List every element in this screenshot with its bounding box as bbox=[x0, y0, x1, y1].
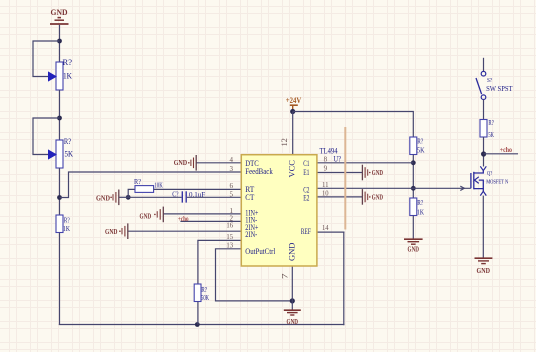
ground GND at RT/CT bbox=[96, 190, 119, 206]
ground GND at pin 4 bbox=[174, 155, 197, 171]
svg-text:1K: 1K bbox=[63, 224, 70, 233]
svg-text:FeedBack: FeedBack bbox=[245, 167, 272, 176]
svg-text:GND: GND bbox=[140, 213, 152, 221]
wire pin 1 to GND bbox=[164, 213, 242, 215]
svg-text:7: 7 bbox=[280, 274, 289, 280]
svg-text:8: 8 bbox=[324, 156, 328, 164]
wire pot2 bottom to R1K top bbox=[59, 168, 61, 216]
wire wiper loop of pot 1 bbox=[33, 41, 60, 77]
resistor R? 50K bbox=[194, 284, 209, 302]
wire MOSFET source to GND bbox=[482, 196, 484, 258]
svg-text:5: 5 bbox=[230, 190, 234, 198]
transistor Q? MOSFET N bbox=[471, 166, 509, 195]
ground GND below right R1K bbox=[404, 239, 423, 253]
svg-text:3: 3 bbox=[230, 165, 234, 173]
svg-text:GND: GND bbox=[372, 193, 383, 201]
op-amp U? TL494 IC body bbox=[226, 138, 341, 279]
svg-text:GND: GND bbox=[477, 267, 491, 275]
ground GND at pin 9 bbox=[362, 165, 383, 181]
svg-text:GND: GND bbox=[96, 194, 110, 202]
wire pin 11 to MOSFET gate bbox=[317, 187, 471, 189]
svg-text:R?: R? bbox=[417, 198, 423, 207]
svg-text:GND: GND bbox=[51, 8, 68, 17]
wire wiper loop of pot 2 bbox=[33, 118, 60, 155]
wire junction I up to R10K bbox=[128, 189, 135, 197]
junction node B bbox=[57, 116, 62, 121]
svg-text:U?: U? bbox=[334, 154, 342, 163]
power port +24V bbox=[286, 96, 302, 112]
wire R10K to pin 6 RT bbox=[154, 188, 242, 190]
resistor R? 5K right bbox=[410, 137, 425, 155]
svg-text:13: 13 bbox=[226, 242, 233, 250]
wire capacitor to pin 5 CT bbox=[187, 196, 242, 198]
resistor R? 5K switch branch bbox=[480, 118, 494, 139]
ground GND at pin 10 bbox=[362, 189, 383, 205]
svg-text:10: 10 bbox=[322, 189, 329, 197]
svg-text:GND: GND bbox=[287, 243, 297, 261]
wire feedback tap to pin 3 bbox=[60, 172, 242, 198]
resistor R? 1K right bbox=[410, 198, 425, 217]
ground GND below pin 7 bbox=[284, 310, 301, 326]
wire R1K bottom down left riser bbox=[59, 233, 61, 325]
switch S? SW SPST bbox=[476, 71, 513, 99]
wire GND to pot R?1K top bbox=[59, 25, 61, 63]
svg-text:GND: GND bbox=[408, 246, 420, 254]
svg-text:5K: 5K bbox=[417, 146, 425, 155]
wire R5K bottom through junctions to R1K top bbox=[412, 155, 414, 199]
svg-text:11: 11 bbox=[322, 181, 329, 189]
ground GND at pin 1 bbox=[140, 207, 164, 223]
svg-text:Q?: Q? bbox=[487, 170, 492, 177]
pin arrow gate bbox=[460, 186, 464, 190]
wire pot1 bottom to pot2 top bbox=[59, 90, 61, 141]
svg-text:9: 9 bbox=[324, 165, 328, 173]
wire GND to junction I bbox=[119, 196, 128, 198]
wire pin 9 to GND bbox=[317, 172, 363, 174]
wire pin 16 to GND bbox=[128, 230, 241, 232]
resistor R? 1K lower-left bbox=[56, 215, 70, 233]
wire REF pin 14 bbox=[317, 231, 345, 233]
junction node F +24V bbox=[290, 109, 295, 114]
svg-text:4: 4 bbox=[230, 156, 234, 164]
svg-text:OutPutCtrl: OutPutCtrl bbox=[245, 247, 276, 256]
junction node A bbox=[57, 39, 62, 44]
svg-text:+24V: +24V bbox=[286, 96, 302, 105]
svg-text:10K: 10K bbox=[154, 181, 163, 190]
svg-text:SW SPST: SW SPST bbox=[486, 85, 513, 93]
wire pin 8 to node G bbox=[317, 162, 413, 164]
svg-text:R?: R? bbox=[488, 118, 494, 127]
svg-text:14: 14 bbox=[322, 224, 329, 232]
svg-text:15: 15 bbox=[226, 233, 233, 241]
resistor R? 10K bbox=[134, 177, 163, 192]
svg-text:S?: S? bbox=[487, 77, 492, 84]
svg-text:+cho: +cho bbox=[178, 215, 189, 223]
svg-text:1K: 1K bbox=[63, 72, 72, 81]
svg-text:MOSFET N: MOSFET N bbox=[486, 179, 508, 186]
svg-text:REF: REF bbox=[301, 227, 311, 236]
ground GND at pin 16 bbox=[105, 223, 128, 239]
svg-text:5K: 5K bbox=[488, 130, 494, 139]
wire switch top stub bbox=[483, 58, 485, 72]
ground GND top-left power port bbox=[50, 8, 69, 24]
svg-text:E2: E2 bbox=[303, 193, 309, 202]
junction node I RT/CT bbox=[126, 195, 131, 200]
potentiometer R? 1K bbox=[49, 58, 73, 90]
svg-text:E1: E1 bbox=[303, 168, 309, 177]
svg-text:+cho: +cho bbox=[500, 146, 513, 154]
svg-text:C1: C1 bbox=[303, 159, 309, 168]
svg-text:CT: CT bbox=[245, 193, 254, 202]
svg-text:C?: C? bbox=[172, 190, 179, 199]
svg-text:GND: GND bbox=[174, 159, 188, 167]
svg-text:2IN-: 2IN- bbox=[245, 230, 257, 239]
svg-text:GND: GND bbox=[372, 169, 383, 177]
wire switch to R5K bbox=[483, 100, 485, 120]
junction node H pin11 bbox=[411, 186, 416, 191]
svg-text:R?: R? bbox=[417, 137, 423, 146]
wire R50K bottom to bottom wire bbox=[197, 302, 199, 325]
wire pin 4 DTC to GND bbox=[196, 162, 241, 164]
svg-text:GND: GND bbox=[105, 228, 118, 236]
potentiometer R? 5K bbox=[49, 137, 74, 168]
svg-text:12: 12 bbox=[280, 138, 289, 146]
svg-text:16: 16 bbox=[226, 222, 233, 230]
wire REF riser bbox=[343, 232, 345, 325]
svg-text:6: 6 bbox=[230, 182, 234, 190]
svg-text:5K: 5K bbox=[65, 150, 74, 159]
junction node G pin8 bbox=[411, 160, 416, 165]
svg-text:R?: R? bbox=[134, 177, 142, 186]
wire R1K bottom to GND bbox=[412, 216, 414, 239]
svg-text:1K: 1K bbox=[417, 208, 424, 217]
wire pin 15 to R50K bbox=[198, 240, 241, 284]
wire pin 10 to GND bbox=[317, 196, 363, 198]
junction node E pin7 ground bbox=[290, 298, 295, 303]
wire +24V rail to R5K bbox=[293, 112, 414, 138]
wire tan floating vertical bbox=[344, 127, 346, 230]
junction node D R50K bottom bbox=[195, 322, 200, 327]
wire pin 12 VCC bbox=[292, 112, 294, 156]
capacitor C? 0.1uF bbox=[172, 190, 205, 203]
wire net +cho right bbox=[484, 153, 518, 155]
wire junction I to capacitor bbox=[128, 196, 181, 198]
svg-text:GND: GND bbox=[287, 318, 299, 326]
junction node J +cho bbox=[481, 151, 486, 156]
wire bottom horizontal bbox=[59, 324, 345, 326]
svg-text:50K: 50K bbox=[201, 293, 209, 302]
svg-text:R?: R? bbox=[63, 58, 73, 67]
junction node C feedback tap bbox=[57, 195, 62, 200]
ground GND below MOSFET bbox=[475, 258, 493, 275]
svg-text:R?: R? bbox=[64, 137, 72, 146]
wire pin 7 to ground node bbox=[291, 266, 293, 310]
wire pin 2 net +cho bbox=[180, 220, 241, 222]
svg-text:VCC: VCC bbox=[287, 160, 297, 178]
wire pin 13 loop to ground node bbox=[216, 249, 293, 301]
wire R5K to MOSFET drain bbox=[483, 137, 485, 167]
